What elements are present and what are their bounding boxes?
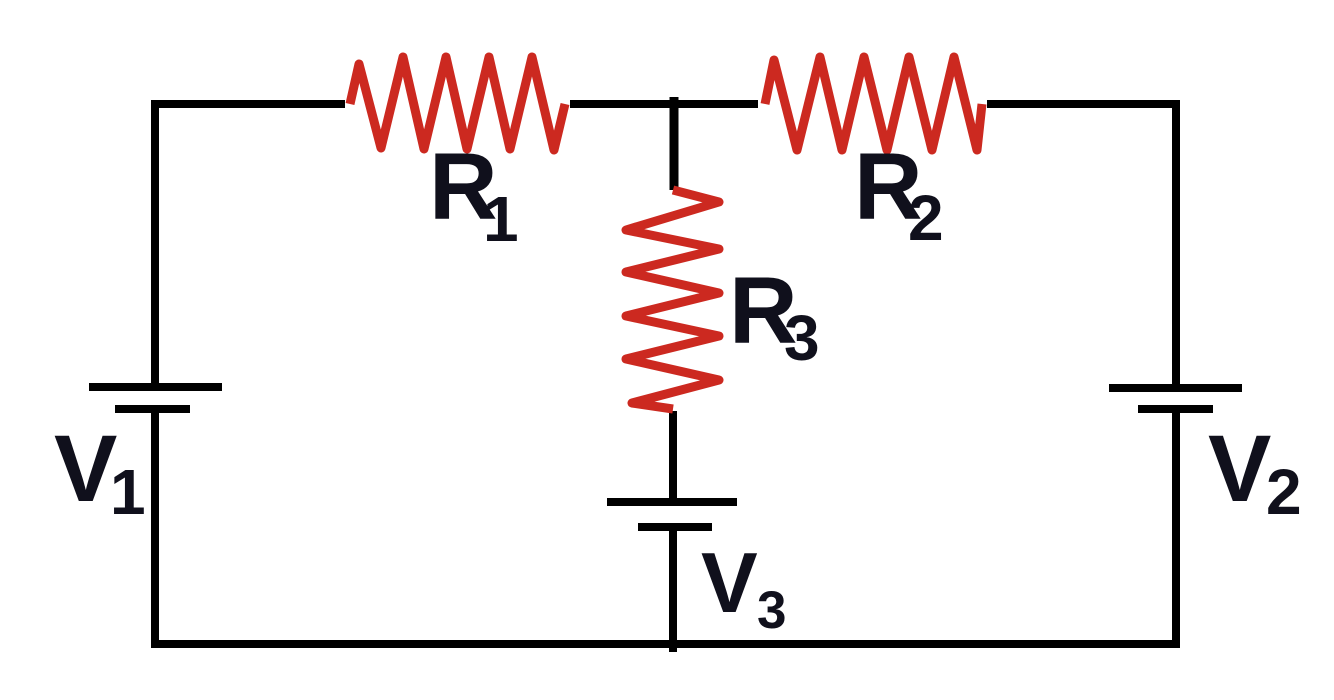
battery V1: [89, 387, 222, 409]
wire bottom horizontal: [151, 640, 1180, 648]
svg-text:2: 2: [1266, 456, 1302, 528]
node junction top-center: [670, 97, 679, 190]
svg-text:3: 3: [784, 302, 820, 374]
svg-text:1: 1: [483, 183, 519, 255]
wire top-right horizontal segment: [987, 100, 1179, 108]
wire left vertical upper: [151, 100, 159, 387]
battery V3: [607, 502, 737, 527]
wire right vertical upper: [1172, 100, 1180, 387]
wire right vertical lower: [1172, 409, 1180, 648]
battery V2: [1109, 388, 1242, 409]
svg-text:V: V: [54, 416, 117, 522]
resistor R2: [765, 57, 982, 150]
wire center vertical mid: [669, 411, 677, 502]
wire left vertical lower: [151, 409, 159, 648]
wire top-center horizontal segment: [570, 100, 758, 108]
svg-text:3: 3: [757, 581, 786, 640]
svg-text:2: 2: [908, 182, 944, 254]
svg-text:1: 1: [110, 456, 146, 528]
svg-text:V: V: [701, 536, 758, 631]
svg-text:V: V: [1208, 416, 1271, 522]
resistor R1: [350, 57, 565, 150]
resistor R3: [626, 190, 719, 409]
wire top-left horizontal segment: [151, 100, 345, 108]
wire center vertical lower: [669, 527, 677, 652]
